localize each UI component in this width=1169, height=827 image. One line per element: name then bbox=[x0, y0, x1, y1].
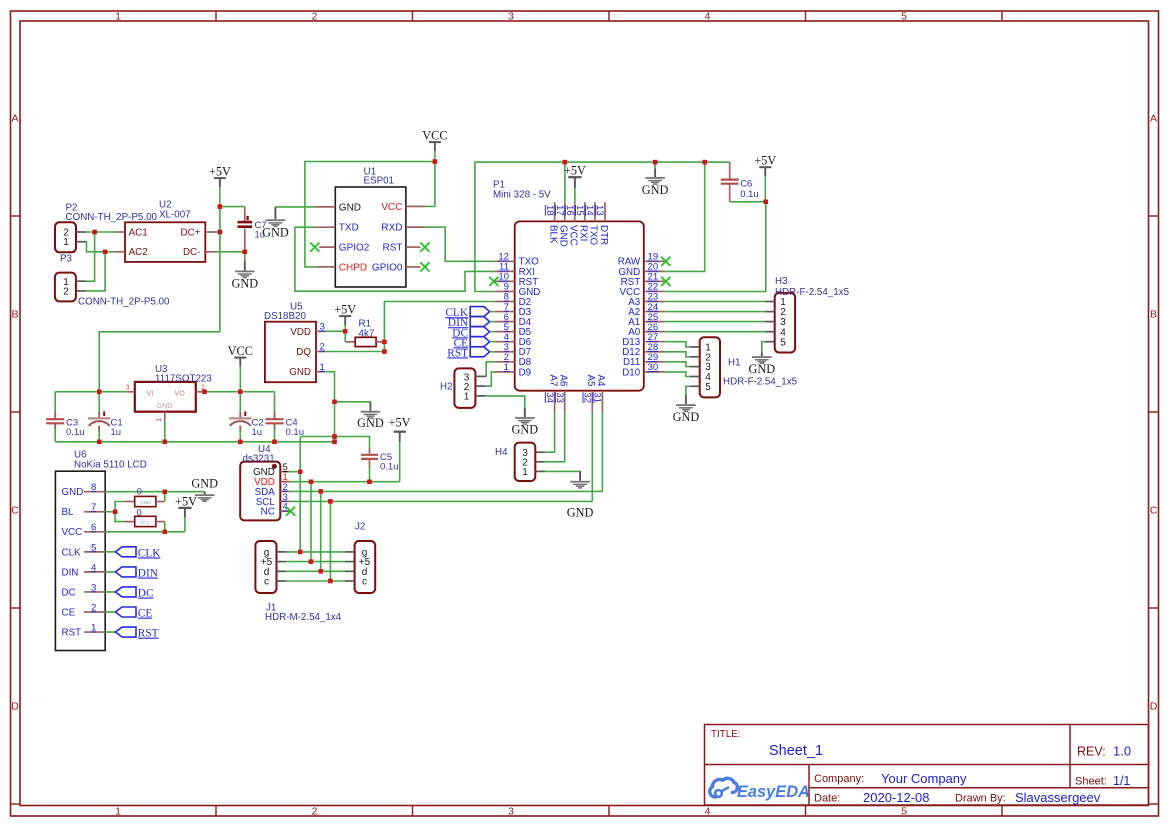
junction +5V/DC+ bbox=[218, 230, 222, 234]
wire flag DIN to pin bbox=[490, 321, 495, 323]
wire P2.2 to AC1 bbox=[86, 231, 115, 233]
svg-text:D10: D10 bbox=[622, 367, 641, 378]
wire P3.1 up to AC1 net bbox=[86, 232, 95, 281]
svg-text:A6: A6 bbox=[558, 375, 569, 388]
junction +5 bbox=[309, 559, 313, 563]
svg-text:BLK: BLK bbox=[547, 225, 558, 244]
junction +5V/C7 branch bbox=[218, 204, 222, 208]
svg-text:RST: RST bbox=[383, 243, 403, 254]
svg-text:6: 6 bbox=[91, 522, 96, 533]
net flag CE (U6) bbox=[115, 607, 152, 620]
svg-text:0: 0 bbox=[137, 487, 142, 498]
wire U4 SCL bbox=[290, 500, 592, 502]
no-connect P1 RAW pin19 bbox=[661, 257, 670, 266]
module U2 XL-007 bbox=[114, 222, 216, 262]
junction SDA/J1 d branch bbox=[319, 489, 323, 493]
svg-text:+5V: +5V bbox=[175, 495, 197, 509]
svg-text:14: 14 bbox=[584, 205, 595, 216]
svg-text:CONN-TH_2P-P5.00: CONN-TH_2P-P5.00 bbox=[66, 212, 158, 223]
svg-text:0.1u: 0.1u bbox=[66, 427, 85, 438]
svg-text:TXD: TXD bbox=[339, 223, 359, 234]
net flag DC bbox=[452, 327, 489, 340]
wire A3 to H3.1 bbox=[664, 301, 765, 303]
svg-text:H4: H4 bbox=[495, 447, 508, 458]
svg-text:2: 2 bbox=[91, 602, 96, 613]
wire SDA riser to A4 bbox=[601, 412, 603, 492]
resistor R GND 0ohm bbox=[115, 492, 165, 512]
svg-text:5: 5 bbox=[901, 806, 907, 818]
connector H1 HDR-F-2.54_1x5 bbox=[690, 337, 720, 397]
svg-text:+5V: +5V bbox=[389, 416, 411, 430]
svg-text:REV:: REV: bbox=[1077, 745, 1106, 759]
power +5V (U4 VDD) bbox=[389, 416, 411, 482]
wire pin17 GND drop bbox=[564, 162, 566, 202]
svg-text:1: 1 bbox=[91, 622, 96, 633]
svg-text:VO: VO bbox=[174, 388, 185, 397]
svg-text:3: 3 bbox=[126, 385, 130, 392]
wire U6 CLK bbox=[105, 551, 115, 553]
connector H4 bbox=[515, 443, 545, 481]
svg-text:1: 1 bbox=[504, 362, 509, 373]
wire DC+ to +5V bbox=[216, 231, 220, 233]
wire J1 c riser bbox=[329, 501, 331, 581]
svg-text:VCC: VCC bbox=[62, 527, 83, 538]
ground (top rail) bbox=[642, 162, 669, 197]
svg-text:Mini 328 - 5V: Mini 328 - 5V bbox=[493, 189, 551, 200]
capacitor C6 bbox=[721, 162, 739, 202]
svg-text:3: 3 bbox=[320, 322, 325, 333]
net flag CLK bbox=[445, 307, 489, 320]
power +5V (above P1 VCC pin16) bbox=[564, 164, 586, 203]
label C2 bbox=[252, 418, 264, 439]
wire U5 DQ bbox=[326, 351, 385, 353]
junction P2/P3 pin1 bbox=[92, 230, 96, 234]
svg-text:+5V: +5V bbox=[334, 303, 356, 317]
wire J1-J2 g bbox=[286, 551, 345, 553]
svg-text:1: 1 bbox=[156, 418, 163, 422]
svg-text:GND: GND bbox=[511, 423, 538, 437]
wire H1.5 to ground bbox=[686, 386, 690, 395]
connector P3 bbox=[55, 273, 86, 302]
svg-text:Drawn By:: Drawn By: bbox=[955, 793, 1006, 805]
wire U1 RXD to P1 TXO bbox=[425, 227, 494, 261]
junction gnd rail end bbox=[332, 440, 336, 444]
svg-text:C: C bbox=[11, 505, 19, 517]
svg-text:2: 2 bbox=[312, 806, 318, 818]
svg-text:GPIO2: GPIO2 bbox=[339, 243, 370, 254]
label U2 bbox=[159, 200, 191, 221]
capacitor C5 bbox=[361, 448, 378, 482]
junction AC2 net bbox=[103, 250, 107, 254]
frame column ticks bottom bbox=[216, 806, 1002, 817]
wire flag DC to pin bbox=[490, 331, 495, 333]
wire DC- to C7 bbox=[216, 251, 245, 253]
svg-text:VCC: VCC bbox=[228, 344, 253, 358]
ground (below C7) bbox=[231, 252, 258, 291]
net flag DIN bbox=[448, 317, 490, 330]
wire C6 bottom to +5V node bbox=[730, 201, 766, 203]
wire A0 to H3.4 bbox=[664, 331, 765, 333]
svg-text:VDD: VDD bbox=[290, 327, 311, 338]
wire U3 output rail bbox=[205, 391, 275, 393]
svg-text:5: 5 bbox=[91, 542, 96, 553]
capacitor C3 bbox=[46, 392, 64, 442]
svg-text:DIN: DIN bbox=[138, 568, 158, 580]
wire +5V jog to U3 input bbox=[99, 332, 220, 392]
svg-text:1117SOT223: 1117SOT223 bbox=[155, 373, 212, 384]
svg-text:HDR-F-2.54_1x5: HDR-F-2.54_1x5 bbox=[775, 287, 850, 298]
wire U3 input rail bbox=[55, 391, 127, 393]
label U5 bbox=[264, 302, 306, 323]
label C3 bbox=[66, 418, 85, 439]
title block Sheet bbox=[1075, 774, 1130, 788]
frame row letters left bbox=[11, 113, 19, 713]
svg-text:Slavassergeev: Slavassergeev bbox=[1015, 790, 1101, 805]
svg-text:EasyEDA: EasyEDA bbox=[737, 783, 810, 801]
label P2 bbox=[66, 203, 158, 224]
svg-text:1: 1 bbox=[115, 806, 121, 818]
svg-text:NoKia 5110 LCD: NoKia 5110 LCD bbox=[74, 459, 147, 470]
power VCC (above U1) bbox=[422, 129, 447, 162]
svg-text:+5V: +5V bbox=[209, 165, 231, 179]
svg-text:31: 31 bbox=[592, 392, 603, 403]
EasyEDA logo bbox=[710, 778, 810, 801]
label P1 bbox=[493, 180, 551, 201]
svg-text:2: 2 bbox=[312, 11, 318, 23]
svg-text:AC1: AC1 bbox=[129, 227, 148, 238]
svg-text:2020-12-08: 2020-12-08 bbox=[863, 790, 930, 805]
net flag RST bbox=[447, 347, 489, 360]
svg-text:CLK: CLK bbox=[62, 547, 82, 558]
svg-text:GND: GND bbox=[262, 225, 289, 239]
wire C7 top branch bbox=[220, 206, 245, 208]
wire A7 to H4.3 bbox=[545, 412, 555, 453]
wire D11 to H1.3 bbox=[664, 362, 690, 367]
label C7 bbox=[255, 220, 267, 241]
label R1 bbox=[359, 319, 375, 340]
svg-text:VCC: VCC bbox=[381, 202, 402, 213]
svg-text:Date:: Date: bbox=[814, 793, 840, 805]
svg-text:TXO: TXO bbox=[588, 225, 599, 246]
wire C5 top branch bbox=[300, 437, 369, 449]
wire P3.2 up to AC2 net bbox=[86, 252, 106, 291]
connector J2 bbox=[345, 541, 375, 593]
junction R1 right bbox=[382, 340, 386, 344]
svg-text:1/1: 1/1 bbox=[1113, 774, 1130, 788]
capacitor C7 bbox=[238, 207, 253, 252]
svg-text:DC: DC bbox=[138, 588, 154, 600]
svg-text:A4: A4 bbox=[595, 375, 606, 388]
capacitor C2 bbox=[229, 392, 251, 442]
wire U1 GND to ground bbox=[275, 206, 315, 208]
svg-text:H3: H3 bbox=[775, 276, 788, 287]
junction output rail VCC bbox=[238, 390, 242, 394]
svg-text:18: 18 bbox=[544, 205, 555, 216]
wire GND rail to P1 pin9 bbox=[475, 162, 730, 291]
svg-text:TITLE:: TITLE: bbox=[711, 729, 740, 740]
frame column numbers bottom bbox=[115, 806, 907, 818]
wire J1-J2 +5 bbox=[286, 561, 345, 563]
net flag RST (U6) bbox=[115, 627, 158, 640]
connector P2 bbox=[55, 222, 86, 252]
svg-text:A: A bbox=[11, 113, 18, 125]
junction C1 bottom bbox=[97, 440, 101, 444]
svg-text:c: c bbox=[362, 577, 367, 588]
svg-text:1: 1 bbox=[522, 467, 528, 478]
wire H4.1 to ground bbox=[545, 470, 580, 473]
wire H2.3 to D8 bbox=[485, 362, 494, 377]
wire J1 +5 riser bbox=[310, 482, 312, 562]
wire D13 to H1.1 bbox=[664, 342, 690, 347]
label J1 bbox=[265, 603, 342, 624]
svg-text:4: 4 bbox=[705, 806, 711, 818]
title block outline bbox=[705, 725, 1149, 806]
svg-text:GND: GND bbox=[140, 500, 151, 506]
svg-text:C6: C6 bbox=[740, 179, 752, 190]
net flag DIN (U6) bbox=[115, 567, 157, 580]
wire U6 CE bbox=[105, 611, 115, 613]
svg-text:RST: RST bbox=[138, 628, 159, 640]
wire U5 GND down bbox=[326, 372, 335, 442]
svg-text:H1: H1 bbox=[728, 358, 741, 369]
junction C4 bottom bbox=[272, 440, 276, 444]
svg-text:VI: VI bbox=[147, 388, 154, 397]
junction pin20 GND bbox=[703, 160, 707, 164]
junction VCC symbol bbox=[433, 159, 437, 163]
svg-text:GPIO0: GPIO0 bbox=[372, 262, 403, 273]
no-connect P1 RST pin10 bbox=[489, 277, 498, 286]
capacitor C1 bbox=[88, 392, 110, 442]
svg-text:RST: RST bbox=[447, 347, 468, 359]
junction gnd rail / C5 branch bbox=[332, 434, 336, 438]
label C4 bbox=[286, 418, 305, 439]
svg-text:B: B bbox=[1150, 309, 1157, 321]
junction C2 bottom bbox=[238, 440, 242, 444]
svg-text:34: 34 bbox=[544, 392, 555, 403]
svg-text:HDR-F-2.54_1x5: HDR-F-2.54_1x5 bbox=[723, 377, 798, 388]
svg-text:CONN-TH_2P-P5.00: CONN-TH_2P-P5.00 bbox=[78, 297, 170, 308]
svg-text:GND: GND bbox=[191, 476, 218, 490]
resistor R VCC 0ohm bbox=[115, 512, 165, 532]
svg-text:CHPD: CHPD bbox=[339, 262, 367, 273]
title block REV bbox=[1077, 744, 1131, 759]
svg-text:+5V: +5V bbox=[564, 164, 586, 178]
frame column ticks top bbox=[216, 11, 1002, 21]
svg-text:0: 0 bbox=[137, 507, 142, 518]
wire +5V down to R1 bbox=[344, 331, 346, 342]
svg-text:5: 5 bbox=[705, 382, 711, 393]
svg-text:2: 2 bbox=[63, 287, 69, 298]
svg-text:GND: GND bbox=[231, 277, 258, 291]
junction pin17 GND bbox=[563, 160, 567, 164]
svg-text:0.1u: 0.1u bbox=[740, 189, 759, 200]
svg-text:DTR: DTR bbox=[598, 225, 609, 245]
wire U6 RST bbox=[105, 631, 115, 633]
connector H3 HDR-F-2.54_1x5 bbox=[765, 293, 795, 353]
svg-text:4: 4 bbox=[91, 562, 97, 573]
svg-text:A7: A7 bbox=[547, 375, 558, 387]
svg-text:CE: CE bbox=[138, 608, 153, 620]
label C1 bbox=[111, 418, 123, 439]
wire U4 VDD to +5V bbox=[290, 481, 400, 483]
svg-text:13: 13 bbox=[594, 205, 605, 216]
svg-text:D: D bbox=[1150, 701, 1158, 713]
junction VDD/C5 bbox=[367, 480, 371, 484]
MCU module P1 Mini 328 - 5V bbox=[495, 202, 665, 411]
junction VDD/+5V bbox=[343, 329, 347, 333]
label U6 bbox=[74, 450, 147, 471]
svg-text:Company:: Company: bbox=[814, 773, 864, 785]
wire A1 to H3.3 bbox=[664, 321, 765, 323]
wire J1-J2 c bbox=[286, 580, 345, 582]
svg-text:c: c bbox=[264, 577, 269, 588]
ground (H4) bbox=[567, 471, 594, 519]
wire U3 GND pin down bbox=[164, 420, 166, 441]
no-connect U1 GPIO0 bbox=[420, 262, 429, 271]
label H1 bbox=[723, 358, 798, 388]
wire to ground (U5) bbox=[335, 401, 371, 403]
svg-text:3: 3 bbox=[91, 582, 96, 593]
junction top rail gnd bbox=[653, 160, 657, 164]
svg-text:XL-007: XL-007 bbox=[159, 209, 191, 220]
svg-text:17: 17 bbox=[554, 205, 565, 216]
svg-text:GND: GND bbox=[748, 362, 775, 376]
svg-text:GND: GND bbox=[673, 410, 700, 424]
connector J1 bbox=[255, 541, 286, 593]
wire A2 to H3.2 bbox=[664, 311, 765, 313]
display U6 NoKia 5110 LCD bbox=[55, 471, 105, 650]
wire U1 VCC net bbox=[305, 162, 435, 267]
net flag CLK (U6) bbox=[115, 547, 161, 560]
no-connect P1 RST pin21 bbox=[661, 277, 670, 286]
svg-text:H2: H2 bbox=[440, 381, 453, 392]
svg-text:BL: BL bbox=[62, 507, 75, 518]
title block Company bbox=[814, 771, 967, 786]
ground (H2) bbox=[511, 408, 538, 437]
svg-text:GND: GND bbox=[339, 202, 361, 213]
svg-text:RST: RST bbox=[62, 627, 82, 638]
svg-text:1: 1 bbox=[63, 237, 69, 248]
junction dots overlay bbox=[92, 159, 768, 583]
power +5V (near U2) bbox=[209, 165, 231, 207]
frame row ticks right bbox=[1149, 216, 1159, 804]
svg-text:Your Company: Your Company bbox=[881, 771, 967, 786]
junction U6 BL bbox=[113, 510, 117, 514]
RTC module U4 ds3231 bbox=[240, 462, 290, 521]
svg-text:4: 4 bbox=[705, 11, 711, 23]
svg-text:GND: GND bbox=[62, 487, 84, 498]
junction U6 VCC bbox=[163, 530, 167, 534]
wire H2.1 to ground bbox=[485, 396, 524, 408]
frame column numbers top bbox=[115, 11, 907, 23]
title block Date row bbox=[814, 790, 1101, 805]
svg-text:5: 5 bbox=[901, 11, 907, 23]
wire U6 DC bbox=[105, 591, 115, 593]
svg-text:GND: GND bbox=[357, 416, 384, 430]
svg-text:+5V: +5V bbox=[754, 154, 776, 168]
ground (U1 GND) bbox=[262, 207, 289, 239]
svg-text:B: B bbox=[11, 309, 18, 321]
frame row ticks left bbox=[11, 216, 21, 804]
junction VO pin bbox=[202, 390, 206, 394]
no-connect U4 NC bbox=[286, 507, 295, 516]
svg-text:AC2: AC2 bbox=[129, 247, 148, 258]
sensor U5 DS18B20 bbox=[265, 322, 326, 383]
label H3 bbox=[775, 276, 850, 298]
svg-text:3: 3 bbox=[508, 11, 514, 23]
svg-text:1: 1 bbox=[320, 362, 325, 373]
svg-text:D: D bbox=[11, 701, 19, 713]
svg-text:Sheet:: Sheet: bbox=[1075, 776, 1107, 788]
junction DQ bbox=[382, 349, 386, 353]
label C6 bbox=[740, 179, 759, 201]
wire SCL riser to A5 bbox=[591, 412, 593, 502]
power +5V (near C6) bbox=[754, 154, 776, 202]
svg-text:GND: GND bbox=[558, 225, 569, 247]
junction input rail C1 bbox=[97, 390, 101, 394]
wire flag CE to pin bbox=[490, 341, 495, 343]
ground (U6) bbox=[191, 476, 218, 502]
wire U6 BL row bbox=[105, 511, 115, 513]
wire U4 SDA bbox=[290, 490, 602, 492]
svg-text:DIN: DIN bbox=[62, 567, 79, 578]
svg-text:CE: CE bbox=[62, 607, 76, 618]
wire +5V vertical to DC+ and down bbox=[219, 207, 221, 332]
wire D12 to H1.2 bbox=[664, 352, 690, 357]
no-connect U1 RST bbox=[420, 243, 429, 252]
junction U3 gnd bbox=[163, 440, 167, 444]
svg-text:C: C bbox=[1150, 505, 1158, 517]
svg-text:1u: 1u bbox=[252, 427, 263, 438]
junction U6 gnd row bbox=[163, 490, 167, 494]
no-connect U1 GPIO2 bbox=[310, 243, 319, 252]
wire U6 VCC row bbox=[105, 531, 185, 533]
junction VDD/J1 +5 branch bbox=[309, 480, 313, 484]
wire pin20 GND bbox=[664, 162, 704, 271]
wire U1 TXD to P1 RXI bbox=[295, 227, 495, 291]
wire U5 VDD bbox=[326, 330, 346, 332]
power +5V (U5 VDD) bbox=[334, 303, 356, 332]
svg-text:DC+: DC+ bbox=[181, 227, 201, 238]
svg-text:32: 32 bbox=[582, 392, 593, 403]
svg-text:4k7: 4k7 bbox=[359, 328, 375, 339]
label U4 bbox=[243, 444, 275, 464]
wire +5V to P1 VCC pin22 bbox=[664, 202, 766, 292]
svg-text:HDR-M-2.54_1x4: HDR-M-2.54_1x4 bbox=[265, 612, 342, 623]
svg-text:2: 2 bbox=[320, 342, 325, 353]
ground (H3) bbox=[748, 353, 775, 376]
wire flag CLK to pin bbox=[490, 311, 495, 313]
wire J1 d riser bbox=[320, 491, 322, 571]
junction d bbox=[319, 569, 323, 573]
svg-text:16: 16 bbox=[564, 205, 575, 216]
wire U6 DIN bbox=[105, 571, 115, 573]
wire A6 to H4.2 bbox=[545, 412, 565, 462]
label P3 bbox=[60, 254, 170, 308]
svg-text:ESP01: ESP01 bbox=[364, 176, 395, 187]
wire U4 GND bbox=[290, 471, 300, 473]
svg-text:GND: GND bbox=[157, 401, 173, 410]
wire D10 to H1.4 bbox=[664, 372, 690, 377]
svg-text:15: 15 bbox=[574, 205, 585, 216]
capacitor C4 bbox=[265, 392, 283, 442]
wire H2.2 to D9 bbox=[485, 372, 494, 386]
svg-text:DC: DC bbox=[62, 587, 76, 598]
svg-text:CLK: CLK bbox=[138, 547, 161, 559]
svg-text:GND: GND bbox=[289, 367, 311, 378]
ground (U5/U4 area) bbox=[357, 402, 384, 430]
frame row letters right bbox=[1150, 113, 1158, 713]
